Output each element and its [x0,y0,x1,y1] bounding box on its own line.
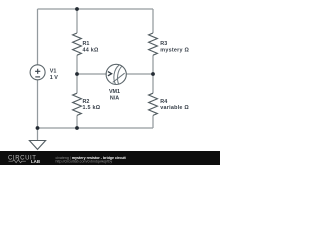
voltmeter VM1 [106,64,126,84]
svg-text:VM1: VM1 [109,89,120,95]
wire middle branch top lead [76,9,78,33]
svg-text:variable Ω: variable Ω [160,105,189,111]
wire middle branch bottom lead [76,115,78,128]
node junction bottom middle [75,126,79,130]
ground [37,128,39,141]
wire right branch top lead [152,9,154,33]
svg-text:R3: R3 [160,41,167,47]
node junction mid left [75,72,79,76]
svg-text:1.5 kΩ: 1.5 kΩ [83,105,101,111]
node junction top middle [75,7,79,11]
svg-text:N/A: N/A [110,96,119,102]
wire top horizontal [38,8,154,10]
resistor R2 [73,93,82,115]
svg-text:http://circuitlab.com/cvbndqwk: http://circuitlab.com/cvbndqwkejrtby [56,159,113,163]
wire middle branch between R1 and R2 [76,55,78,93]
resistor R1 [73,33,82,55]
svg-text:44 kΩ: 44 kΩ [83,47,99,53]
svg-text:V1: V1 [50,69,57,75]
svg-text:R2: R2 [83,99,90,105]
wire left branch upper [37,9,39,65]
svg-text:R4: R4 [160,99,167,105]
svg-text:LAB: LAB [31,159,40,164]
wire voltmeter left [77,73,107,75]
voltage source V1 [30,65,45,80]
svg-text:mystery Ω: mystery Ω [160,47,189,53]
footer attribution bar [0,151,220,165]
wire bottom horizontal [38,127,154,129]
node junction ground [36,126,40,130]
wire voltmeter right [126,73,153,75]
svg-text:1 V: 1 V [50,75,58,81]
wire right branch between R3 and R4 [152,55,154,93]
node junction mid right [151,72,155,76]
resistor R4 [149,93,158,115]
svg-text:R1: R1 [83,41,90,47]
CircuitLab logo [8,156,40,164]
wire right branch bottom lead [152,115,154,128]
wire left branch lower [37,80,39,128]
resistor R3 [149,33,158,55]
